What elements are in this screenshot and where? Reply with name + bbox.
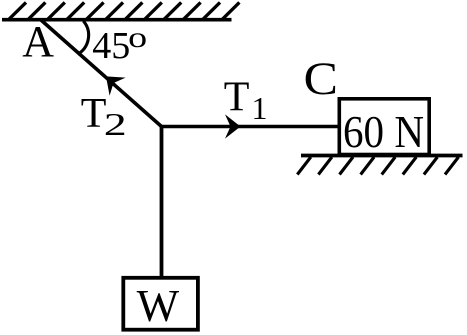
svg-text:C: C (304, 53, 339, 105)
svg-text:T: T (224, 74, 250, 120)
svg-text:2: 2 (104, 106, 127, 142)
svg-text:45: 45 (92, 25, 130, 67)
svg-text:W: W (137, 281, 180, 331)
svg-text:1: 1 (252, 90, 268, 126)
svg-text:A: A (22, 17, 54, 66)
svg-text:60 N: 60 N (343, 106, 424, 157)
svg-text:T: T (81, 91, 107, 137)
svg-text:o: o (128, 21, 147, 54)
